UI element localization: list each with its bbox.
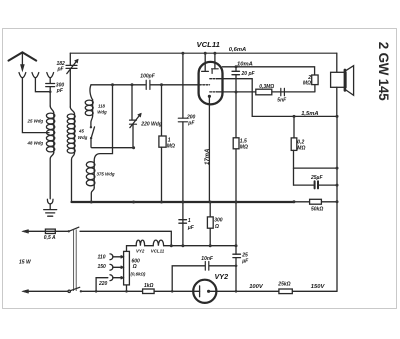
svg-text:µF: µF [187, 225, 195, 231]
svg-text:VY2: VY2 [215, 272, 229, 281]
svg-text:220 Wdg: 220 Wdg [140, 122, 162, 128]
svg-text:5nF: 5nF [277, 98, 287, 104]
svg-text:25kΩ: 25kΩ [277, 282, 290, 288]
svg-text:µF: µF [241, 259, 249, 265]
svg-text:110: 110 [98, 254, 106, 260]
svg-text:220: 220 [98, 281, 108, 287]
svg-text:10mA: 10mA [237, 61, 253, 67]
svg-text:Ω: Ω [132, 264, 137, 270]
svg-text:150: 150 [98, 264, 107, 270]
svg-text:VCL11: VCL11 [197, 40, 220, 49]
svg-text:150V: 150V [311, 284, 326, 290]
svg-text:25 Wdg: 25 Wdg [27, 118, 44, 123]
svg-text:15 W: 15 W [19, 260, 32, 266]
svg-text:Wdg: Wdg [78, 135, 88, 140]
svg-text:MΩ: MΩ [297, 146, 305, 152]
svg-text:1,5mA: 1,5mA [301, 111, 318, 117]
svg-text:375 Wdg: 375 Wdg [97, 172, 115, 177]
svg-text:0,5 A: 0,5 A [44, 235, 56, 241]
svg-text:VCL11: VCL11 [151, 248, 165, 253]
svg-text:MΩ: MΩ [303, 81, 311, 87]
svg-text:1kΩ: 1kΩ [144, 283, 154, 289]
svg-text:50kΩ: 50kΩ [311, 206, 323, 212]
svg-text:0,3MΩ: 0,3MΩ [259, 84, 274, 90]
svg-text:2 GW 145: 2 GW 145 [376, 42, 391, 101]
svg-text:0,2: 0,2 [297, 139, 304, 145]
svg-text:300: 300 [214, 218, 223, 224]
svg-text:100V: 100V [249, 284, 264, 290]
svg-text:pF: pF [57, 66, 65, 72]
svg-text:48 Wdg: 48 Wdg [27, 140, 44, 145]
svg-text:Ω: Ω [214, 224, 219, 230]
svg-text:MΩ: MΩ [167, 144, 175, 150]
svg-text:20 pF: 20 pF [241, 71, 256, 77]
svg-text:25µF: 25µF [310, 175, 323, 181]
svg-text:Wdg: Wdg [97, 110, 107, 115]
svg-text:pF: pF [56, 88, 64, 94]
svg-text:1: 1 [188, 218, 191, 224]
svg-text:118: 118 [98, 104, 106, 109]
svg-text:100pF: 100pF [140, 74, 155, 80]
svg-text:(0,6kΩ): (0,6kΩ) [131, 272, 146, 277]
svg-text:VY2: VY2 [136, 248, 145, 253]
svg-text:pF: pF [187, 121, 195, 127]
svg-text:17mA: 17mA [205, 149, 211, 165]
svg-text:10nF: 10nF [201, 256, 214, 262]
svg-text:0,6mA: 0,6mA [229, 47, 246, 53]
svg-text:MΩ: MΩ [240, 144, 248, 150]
svg-text:45: 45 [78, 129, 84, 134]
